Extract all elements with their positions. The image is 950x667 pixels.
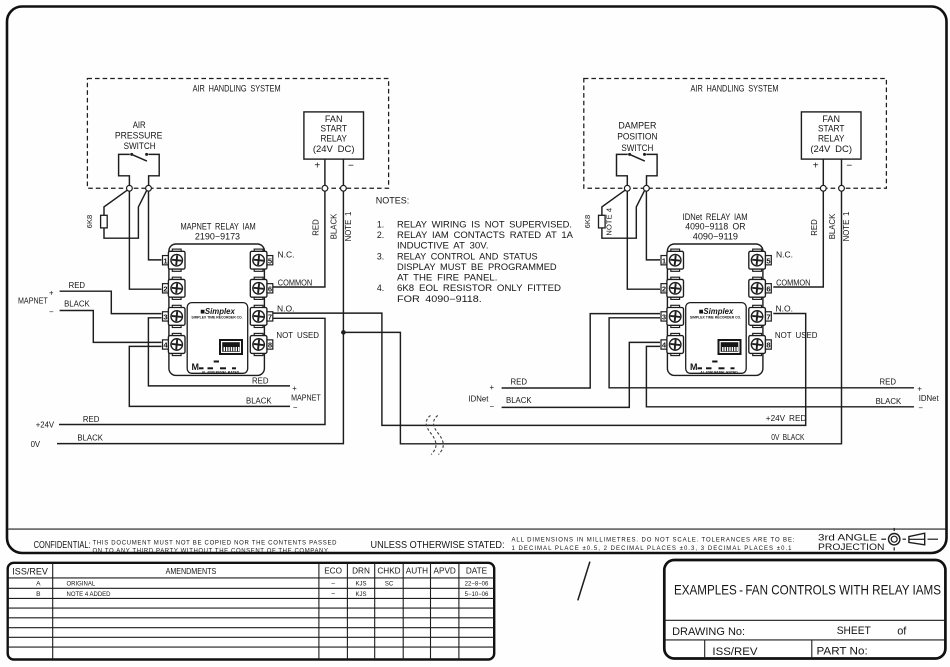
svg-text:CONFIDENTIAL:: CONFIDENTIAL: [34,540,91,551]
label: IDNet network in (mid page) [469,377,533,411]
fan start relay K1 (left) [304,112,364,172]
svg-text:RED: RED [83,415,100,424]
svg-text:KJS: KJS [355,582,366,588]
svg-text:RELAY CONTROL AND STATUS: RELAY CONTROL AND STATUS [397,251,538,261]
svg-text:+: + [917,384,922,393]
label: RED / BLACK / NOTE 1 (left fan relay leads) [312,212,354,242]
svg-text:BLACK: BLACK [876,397,902,406]
svg-text:RED: RED [511,377,528,386]
wire: terminal 3 to MAPNET + RED out [148,318,290,386]
svg-text:0V: 0V [31,440,41,449]
svg-text:NOTE 4: NOTE 4 [605,208,614,236]
wire: switch right contact to IAM terminal 1 [149,191,162,260]
svg-text:6K8: 6K8 [583,215,592,229]
relay IAM U2 body [667,244,763,375]
svg-text:UNLESS OTHERWISE STATED:: UNLESS OTHERWISE STATED: [371,540,505,551]
svg-text:NOTE 4 ADDED: NOTE 4 ADDED [67,592,112,598]
svg-text:IDNet: IDNet [919,394,940,403]
terminal 3 (U1) [168,305,185,327]
svg-text:8: 8 [766,341,770,350]
air handling system enclosure (left, dashed) [87,79,388,189]
svg-text:SHEET: SHEET [837,625,871,637]
label: MAPNET network out [246,376,321,411]
svg-text:AIR HANDLING SYSTEM: AIR HANDLING SYSTEM [193,84,281,94]
svg-text:−: − [331,591,335,598]
NOTES text block [376,195,573,304]
svg-text:INDUCTIVE AT 30V.: INDUCTIVE AT 30V. [397,240,489,250]
svg-text:+24V: +24V [36,421,55,430]
svg-text:2: 2 [163,284,167,293]
svg-text:ALL DIMENSIONS IN MILLIMETRES.: ALL DIMENSIONS IN MILLIMETRES. DO NOT SC… [512,537,795,543]
labels: U1 contact names [276,249,319,340]
3rd angle projection symbol [881,528,938,551]
wire: fan relay - lead [342,159,344,185]
wire: IDNet + RED in to terminal 3 (right IAM) [502,314,660,388]
svg-text:SIMPLEX TIME RECORDER CO.: SIMPLEX TIME RECORDER CO. [191,316,242,320]
node: fan relay terminal circles on boundary (right) [820,185,844,191]
svg-text:+: + [314,160,320,171]
svg-text:EXAMPLES - FAN CONTROLS WITH R: EXAMPLES - FAN CONTROLS WITH RELAY IAMS [674,581,941,597]
relay IAM U1 Simplex logo [191,307,242,320]
svg-text:4.: 4. [377,283,384,293]
svg-text:ECO: ECO [324,567,342,576]
svg-text:8: 8 [268,341,272,350]
svg-text:RELAY: RELAY [320,134,347,144]
svg-text:N.O.: N.O. [776,304,793,314]
svg-text:2: 2 [662,284,666,293]
svg-text:COMMON: COMMON [278,277,312,287]
wire: 0V link to right section (through cable break) [343,191,841,444]
revision table frame [8,563,495,660]
relay IAM U1 MAPNET 2190-9173 : headline [180,221,255,241]
svg-text:NOTE 1: NOTE 1 [344,212,353,242]
damper position switch S2 label [617,121,657,153]
wire: fan relay + (RED) down to COMMON terminal 6 [273,191,325,287]
svg-text:−: − [293,403,298,412]
terminal 1 (U1) [168,249,185,271]
cable break symbol across +24V and 0V links [426,416,443,455]
svg-text:4090−9118 OR: 4090−9118 OR [685,222,745,232]
wire: fan relay K2 - lead [841,159,843,185]
air pressure switch S1 label [115,120,163,151]
svg-text:START: START [818,124,845,134]
svg-text:SWITCH: SWITCH [621,143,653,153]
damper position switch S2 [617,153,658,186]
svg-text:+: + [292,384,297,393]
labels: U2 contact names [775,249,818,340]
svg-text:SIMPLEX TIME RECORDER CO.: SIMPLEX TIME RECORDER CO. [690,316,741,320]
wire: terminal 7 to +24V supply label [59,318,325,424]
svg-text:22−8−06: 22−8−06 [465,582,489,588]
terminal 6 (U1) [250,277,267,299]
svg-text:BLACK: BLACK [246,397,272,406]
svg-text:START: START [320,124,347,134]
svg-text:NOT USED: NOT USED [775,330,818,340]
svg-text:AIR HANDLING SYSTEM: AIR HANDLING SYSTEM [691,84,779,94]
svg-text:(24V DC): (24V DC) [810,144,852,154]
svg-text:MAPNET RELAY IAM: MAPNET RELAY IAM [180,221,255,231]
svg-text:7: 7 [268,313,272,322]
terminal 1 (U2) [667,249,684,271]
terminal 3 (U2) [667,305,684,327]
3rd angle projection label [818,532,885,552]
svg-text:DRAWING No:: DRAWING No: [672,626,745,638]
svg-text:THIS DOCUMENT MUST NOT BE COPI: THIS DOCUMENT MUST NOT BE COPIED NOR THE… [93,540,338,546]
svg-text:FAN: FAN [325,114,343,124]
svg-text:BLACK: BLACK [330,213,339,239]
svg-text:SC: SC [385,582,394,588]
svg-text:POSITION: POSITION [617,132,657,142]
svg-text:MAPNET: MAPNET [18,297,48,306]
svg-text:3rd ANGLE: 3rd ANGLE [818,532,877,542]
drawing number row [672,625,907,638]
svg-text:BLACK: BLACK [77,433,103,442]
terminal 5 (U1) [250,249,267,271]
svg-text:FAN: FAN [822,114,840,124]
svg-text:BLACK: BLACK [64,300,90,309]
resistor R-EOL 6K8 (left) [85,190,147,238]
relay IAM U1 body [169,244,265,375]
svg-text:BLACK: BLACK [506,396,532,405]
svg-text:RELAY: RELAY [818,134,845,144]
svg-text:AL 4090 PANEL RATED: AL 4090 PANEL RATED [700,370,738,374]
relay IAM U1 DIP switch [219,339,243,355]
svg-text:(24V DC): (24V DC) [313,144,355,154]
terminal 7 (U1) [250,305,267,327]
node: fan relay terminal circles on boundary (left) [322,185,346,191]
revision row A [36,581,489,588]
svg-text:AT THE FIRE PANEL.: AT THE FIRE PANEL. [397,273,497,283]
svg-text:COMMON: COMMON [776,277,810,287]
svg-text:B: B [36,591,41,598]
terminal 2 (U1) [168,277,185,299]
svg-text:FOR 4090−9118.: FOR 4090−9118. [397,294,482,304]
node: switch terminal circles on enclosure boundary (left) [126,185,151,191]
terminal 8 (U1) [250,333,267,355]
wire: fan relay K2 + lead [822,159,824,185]
terminal 4 (U2) [667,333,684,355]
svg-text:6: 6 [268,284,272,293]
terminal 6 (U2) [749,277,766,299]
svg-text:RED: RED [312,219,321,236]
svg-text:M: M [690,362,698,372]
svg-text:+: + [490,383,495,392]
svg-text:−: − [348,161,354,172]
relay IAM U2 Simplex logo [690,307,741,320]
terminal 5 (U2) [749,249,766,271]
svg-text:−: − [331,581,335,588]
air pressure switch S1 [119,153,160,186]
svg-text:6K8: 6K8 [85,215,94,229]
label: RED / BLACK / NOTE 1 (right fan relay leads) [810,212,851,242]
svg-text:−: − [918,404,923,413]
svg-text:−: − [846,161,852,172]
svg-text:PROJECTION: PROJECTION [818,542,885,552]
pin number boxes U2 right [766,256,772,350]
svg-text:1 DECIMAL PLACE ±0.5, 2 DECIMA: 1 DECIMAL PLACE ±0.5, 2 DECIMAL PLACES ±… [512,546,793,552]
svg-text:+: + [49,288,54,297]
svg-text:NOT USED: NOT USED [276,330,319,340]
fan start relay K2 (right) [801,112,861,172]
svg-text:NOTES:: NOTES: [376,195,410,205]
separator slash mark [578,562,590,601]
svg-text:RED: RED [880,378,897,387]
svg-text:M: M [192,362,200,372]
svg-text:NOTE 1: NOTE 1 [842,212,851,242]
svg-text:RED: RED [252,376,269,385]
svg-text:ISS/REV: ISS/REV [712,646,758,658]
svg-text:2.: 2. [377,230,384,240]
svg-text:SWITCH: SWITCH [124,141,156,151]
pin number boxes U1 right [267,256,273,350]
svg-text:ON TO ANY THIRD PARTY WITHOUT: ON TO ANY THIRD PARTY WITHOUT THE CONSEN… [93,548,330,554]
svg-text:3.: 3. [377,251,384,261]
svg-text:RED: RED [69,281,86,290]
svg-text:6: 6 [766,284,770,293]
terminal 7 (U2) [749,305,766,327]
svg-text:PRESSURE: PRESSURE [115,131,163,141]
svg-text:A: A [36,581,41,588]
pin number boxes U1 left [163,256,169,350]
svg-text:AUTH: AUTH [406,567,428,576]
svg-text:2190−9173: 2190−9173 [195,232,240,242]
svg-text:7: 7 [766,313,770,322]
wire: MAPNET - BLACK in to terminal 4 [60,311,162,343]
svg-text:DAMPER: DAMPER [618,121,656,131]
svg-text:3: 3 [163,313,167,322]
label: IDNet network out (right edge) [876,378,940,413]
svg-text:4090−9119: 4090−9119 [693,231,738,241]
svg-text:BLACK: BLACK [828,213,837,239]
wire: terminal 4 to IDNet - BLACK out [646,346,914,406]
svg-text:DRN: DRN [352,567,370,576]
pin number boxes U2 left [661,256,667,350]
svg-text:N.C.: N.C. [278,249,295,259]
iss/rev + part number row [712,646,867,658]
svg-text:N.C.: N.C. [776,249,793,259]
svg-text:1.: 1. [377,219,384,229]
node: switch terminal circles on enclosure boundary (right) [624,185,649,191]
revision table headers [12,566,487,576]
svg-text:APVD: APVD [434,567,456,576]
svg-text:6K8 EOL RESISTOR ONLY FITTED: 6K8 EOL RESISTOR ONLY FITTED [397,283,561,293]
revision row B [36,591,489,598]
svg-text:−: − [490,402,495,411]
terminal 8 (U2) [749,333,766,355]
terminal 4 (U1) [168,333,185,355]
tolerance statement [371,537,795,552]
svg-text:+24V RED: +24V RED [766,414,807,423]
svg-text:ISS/REV: ISS/REV [12,566,48,576]
svg-text:AMENDMENTS: AMENDMENTS [166,567,217,576]
wire: IDNet - BLACK in to terminal 4 (right IAM) [502,342,660,407]
svg-text:ORIGINAL: ORIGINAL [67,582,96,588]
svg-text:AL 4090 PANEL RATED: AL 4090 PANEL RATED [202,370,240,374]
svg-text:−: − [49,307,54,316]
svg-text:DATE: DATE [466,567,488,576]
relay IAM U2 IDNet 4090-9118/9119 : headline [683,212,748,241]
node: junction dot BLACK/0V [341,330,346,335]
svg-text:MAPNET: MAPNET [291,393,321,402]
label: +24V RED (left supply) [36,415,100,430]
svg-text:IDNet RELAY IAM: IDNet RELAY IAM [683,212,748,222]
svg-text:RED: RED [810,219,819,236]
svg-text:CHKD: CHKD [377,567,400,576]
svg-text:0V BLACK: 0V BLACK [771,433,805,442]
svg-text:3: 3 [662,313,666,322]
wire: fan relay - (BLACK) down to 0V [57,191,343,443]
air handling system enclosure (right, dashed) [584,79,887,189]
svg-text:KJS: KJS [355,592,366,598]
svg-text:5−10−06: 5−10−06 [465,592,489,598]
svg-text:PART No:: PART No: [817,646,868,658]
svg-text:N.O.: N.O. [277,304,294,314]
svg-text:RELAY WIRING IS NOT SUPERVISED: RELAY WIRING IS NOT SUPERVISED. [397,219,572,229]
label: MAPNET network in [18,281,90,316]
svg-text:+: + [813,160,819,171]
svg-text:AIR: AIR [133,120,146,130]
terminal 2 (U2) [667,277,684,299]
wire: damper switch left contact to IAM terminal 2 [627,191,660,289]
relay IAM U2 DIP switch [718,339,742,355]
confidential strip separator line [8,528,945,530]
confidential statement [34,540,338,554]
svg-text:of: of [897,626,907,638]
svg-text:DISPLAY MUST BE PROGRAMMED: DISPLAY MUST BE PROGRAMMED [397,262,557,272]
wire: terminal 4 to MAPNET - BLACK out [129,346,290,406]
wire: N.O. terminal 7 to +24V link to right section [273,313,806,425]
resistor R-EOL 6K8 (right, note 4) [583,190,645,238]
wire: terminal 3 to IDNet + RED out [609,318,914,388]
wire: fan relay + lead [324,159,326,185]
title block frame [664,560,945,659]
wire: switch left contact to IAM terminal 2 [129,191,161,289]
wire: MAPNET + RED in to terminal 3 [60,291,162,313]
label: 0V BLACK (left supply) [31,433,104,449]
wire: fan relay K2 + (RED) down to COMMON terminal 6 [773,191,823,287]
svg-text:IDNet: IDNet [469,395,490,404]
wire: damper switch right contact to IAM terminal 1 [646,191,660,260]
svg-text:RELAY IAM CONTACTS RATED AT 1A: RELAY IAM CONTACTS RATED AT 1A [397,230,573,240]
